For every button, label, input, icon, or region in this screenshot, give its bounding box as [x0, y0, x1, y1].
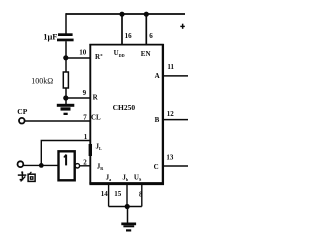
wire output B pin 12 — [163, 119, 188, 121]
svg-text:8: 8 — [139, 190, 143, 198]
svg-text:7: 7 — [83, 113, 87, 121]
label fangxiang (direction) — [18, 171, 35, 181]
node junction cap/resistor/pin10 — [63, 55, 68, 60]
svg-text:11: 11 — [167, 63, 174, 71]
svg-text:CH250: CH250 — [113, 103, 136, 112]
svg-text:B: B — [155, 116, 160, 124]
inverter U2 box — [59, 151, 75, 180]
node junction resistor/ground/pin9 — [63, 95, 68, 100]
wire node up and to pin 1 — [41, 141, 90, 166]
wire from rail corner down to capacitor C1 — [65, 13, 67, 33]
terminal CP input — [19, 118, 25, 124]
wire pin 14 stub — [108, 185, 110, 207]
svg-text:16: 16 — [125, 32, 133, 40]
node junction rail/pin6 — [144, 12, 149, 17]
ground under resistor — [57, 104, 75, 115]
wire direction terminal to inverter input — [24, 164, 59, 166]
svg-text:100kΩ: 100kΩ — [31, 77, 53, 86]
wire pin 16 from rail — [121, 14, 123, 45]
svg-text:14: 14 — [101, 190, 109, 198]
op-amp U1 CH250 IC body — [89, 44, 164, 185]
capacitor C1 1uF — [57, 33, 74, 41]
svg-text:9: 9 — [83, 89, 87, 97]
svg-text:2: 2 — [83, 158, 87, 166]
svg-text:12: 12 — [167, 110, 175, 118]
wire pin 10 to node — [66, 57, 90, 59]
svg-text:15: 15 — [114, 190, 122, 198]
wire pin 6 from rail — [145, 14, 147, 45]
resistor R1 100k — [63, 72, 68, 88]
svg-text:1μF: 1μF — [43, 32, 57, 42]
svg-text:10: 10 — [79, 49, 87, 57]
wire pin 9 to node — [66, 97, 90, 99]
svg-text:6: 6 — [149, 32, 153, 40]
node + supply terminal label — [180, 24, 185, 29]
ground bottom — [121, 223, 136, 232]
node junction direction/pin1 — [39, 163, 44, 168]
wire pin 15 stub — [126, 185, 128, 207]
wire pin 8 stub — [141, 185, 143, 207]
wire CP to pin 7 — [25, 120, 90, 122]
wire output A pin 11 — [163, 75, 188, 77]
wire output C pin 13 — [163, 165, 188, 167]
terminal direction input — [18, 161, 24, 167]
wire ground stem — [127, 207, 129, 223]
wire capacitor bottom to node — [65, 41, 67, 72]
svg-text:CL: CL — [91, 114, 101, 122]
svg-text:13: 13 — [166, 154, 174, 162]
inverter output bubble — [75, 164, 79, 168]
wire ground bus — [109, 206, 142, 208]
wire resistor bottom to ground node — [65, 88, 67, 105]
wire top supply rail — [66, 13, 185, 15]
svg-text:C: C — [154, 163, 159, 171]
svg-text:CP: CP — [17, 107, 27, 116]
inverter symbol 1 — [64, 155, 66, 166]
node junction bus/ground — [125, 204, 130, 209]
svg-text:A: A — [155, 72, 160, 80]
node junction rail/pin16 — [119, 12, 124, 17]
svg-text:EN: EN — [141, 50, 151, 58]
wire inverter output to pin 2 — [80, 165, 90, 167]
svg-text:1: 1 — [84, 133, 88, 141]
